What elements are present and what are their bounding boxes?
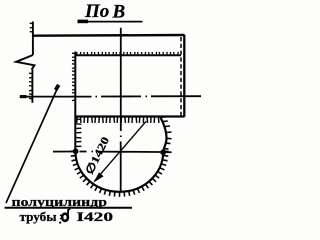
plate bottom edge [75,115,184,117]
weld ticks around arc [70,150,75,152]
horizontal centerline (upper, dash-dot) [20,96,92,98]
svg-text:I420: I420 [77,210,114,224]
svg-text:По: По [84,1,109,22]
weld ticks under plate bottom edge [76,117,78,123]
svg-text:полуцилиндр: полуцилиндр [12,195,108,209]
vertical centerline (dash-dot) [120,28,122,131]
plate right edge [183,35,185,117]
circle horizontal centerline (dash-dot) [53,151,73,153]
half-cylinder arc [75,117,166,192]
junction dot left [73,148,79,154]
ticks on left edge below plate (inside) [76,118,81,120]
caption diameter glyph (hand-drawn d with stroke) [59,209,70,224]
svg-text:трубы: трубы [20,210,57,224]
svg-text:В: В [112,1,126,22]
junction dot right [160,149,166,155]
hidden edge of half-cylinder (dashed) [180,37,182,116]
ticks on left edge (outside) [72,52,74,54]
weld ticks on left broken edge [30,22,32,24]
plate left broken edge with break zigzag [32,22,34,56]
leader end stroke (thick nub) [56,85,59,90]
caption shelf underline [5,207,133,209]
ticks on top edge [76,52,78,54]
dimension arrowhead [94,172,104,182]
plate top edge [33,34,185,37]
half-cylinder left edge [74,52,76,152]
diameter dimension line [94,121,146,181]
half-cylinder top edge (weld seam) [75,54,181,56]
view label "По В" underline [78,21,143,23]
leader line to caption [6,86,59,203]
